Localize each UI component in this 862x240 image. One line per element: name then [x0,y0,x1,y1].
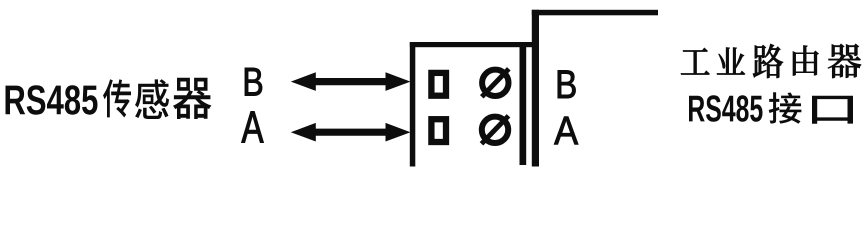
router case: vertical edge [532,10,539,167]
label: char kou [812,96,853,124]
node B right [558,71,576,99]
label: industrial router text char gong [681,48,710,75]
node A right [554,117,578,145]
label: char lu [753,44,783,78]
terminal block: top edge [410,42,535,47]
label: chinese char qi [173,78,212,119]
label: RS485 port text (latin part) [689,95,763,122]
label: char qi serif [828,44,861,78]
wire: A line double arrow [291,123,411,142]
terminal screw A [482,117,508,143]
label: char jie [769,92,802,123]
terminal square hole B [431,73,446,96]
wire: B line double arrow [291,72,411,91]
label: RS485 sensor text (latin part) [6,85,98,115]
label: chinese char gan [135,79,169,119]
node A left [242,112,264,143]
label: char you [793,46,819,76]
label: chinese char chuan [103,79,131,117]
node B left [245,68,262,96]
label: char ye [717,48,745,75]
router case: top edge [532,10,658,16]
terminal square hole A [431,119,446,142]
terminal screw B [482,70,508,96]
terminal block: left edge [410,42,416,167]
terminal block: right edge [520,42,527,165]
